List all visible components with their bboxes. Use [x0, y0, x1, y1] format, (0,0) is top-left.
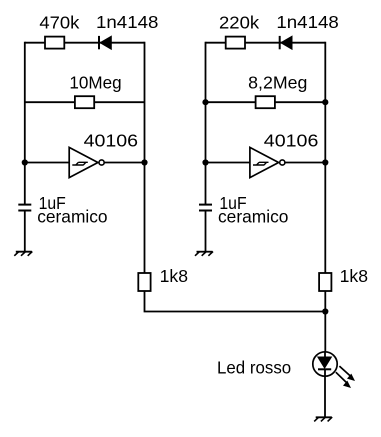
capacitor C1 1uF: [18, 205, 31, 211]
svg-text:1k8: 1k8: [160, 266, 188, 286]
node: left oscillator output junction: [141, 159, 147, 165]
inverter U1 40106: [69, 147, 104, 177]
wire: right oscillator feedback row: [206, 101, 326, 103]
resistor R3 1k8 (left, vertical): [138, 273, 150, 291]
svg-text:40106: 40106: [264, 131, 319, 151]
node: right oscillator input junction: [202, 159, 208, 165]
svg-text:1k8: 1k8: [340, 266, 368, 286]
LED light arrow 1: [339, 366, 355, 381]
node: right oscillator feedback left junction: [202, 99, 208, 105]
svg-text:10Meg: 10Meg: [69, 72, 121, 92]
wire: capacitor to ground (right): [205, 211, 207, 252]
svg-text:ceramico: ceramico: [37, 207, 107, 227]
wire: inverter input (left): [25, 162, 69, 164]
wire: left oscillator left rail: [24, 42, 26, 204]
wire: right oscillator right rail: [324, 42, 326, 273]
ground (LED): [314, 417, 332, 421]
svg-text:ceramico: ceramico: [218, 207, 288, 227]
svg-text:8,2Meg: 8,2Meg: [248, 72, 307, 92]
svg-text:1n4148: 1n4148: [96, 12, 158, 32]
wire: inverter output (left): [105, 162, 145, 164]
node: right oscillator output junction: [322, 159, 328, 165]
wire: left 1k8 to common junction: [145, 291, 326, 312]
svg-text:40106: 40106: [84, 131, 139, 151]
wire: inverter input (right): [206, 162, 250, 164]
ground (right oscillator): [195, 252, 213, 256]
LED D3 red: [313, 352, 337, 376]
wire: right oscillator left rail: [205, 42, 207, 204]
wire: capacitor to ground (left): [24, 211, 26, 252]
svg-text:Led rosso: Led rosso: [217, 358, 291, 378]
wire: left oscillator feedback row: [25, 101, 145, 103]
wire: left oscillator top rail: [25, 42, 145, 44]
wire: inverter output (right): [285, 162, 325, 164]
svg-text:220k: 220k: [219, 12, 259, 32]
node: left oscillator input junction: [22, 159, 28, 165]
node: right oscillator feedback right junction: [322, 99, 328, 105]
diode D1 1n4148: [99, 36, 111, 49]
svg-text:1n4148: 1n4148: [276, 12, 338, 32]
svg-text:470k: 470k: [39, 12, 79, 32]
node: common junction above LED: [322, 308, 328, 314]
wire: right 1k8 to LED: [324, 291, 326, 352]
capacitor C2 1uF: [199, 205, 212, 211]
LED light arrow 2: [336, 372, 351, 388]
wire: right oscillator top rail: [206, 42, 326, 44]
diode D2 1n4148: [280, 36, 292, 49]
resistor 8,2Meg: [256, 96, 275, 108]
resistor R4 1k8 (right, vertical): [319, 273, 331, 291]
resistor 10Meg: [75, 96, 94, 108]
inverter U2 40106: [250, 147, 285, 177]
wire: left oscillator right rail: [144, 42, 146, 273]
resistor 470k: [45, 37, 64, 49]
ground (left oscillator): [14, 252, 32, 256]
resistor 220k: [226, 37, 245, 49]
wire: LED to ground: [324, 376, 326, 417]
